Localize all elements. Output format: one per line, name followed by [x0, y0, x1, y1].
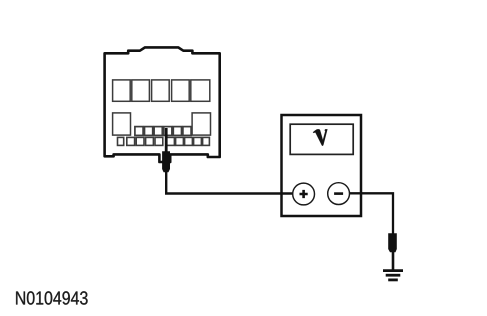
- ground symbol bar 2: [386, 274, 401, 277]
- ground symbol bar 3: [388, 278, 398, 281]
- voltmeter display window: [290, 124, 353, 154]
- connector pin bottom row cavity 8: [185, 137, 193, 145]
- connector pin bottom row cavity 4: [146, 137, 154, 145]
- connector pin bottom row cavity 10: [203, 137, 210, 145]
- probe tip at connector: [162, 151, 170, 172]
- probe tip at ground lead: [388, 233, 397, 252]
- figure number label N0104943: [16, 291, 88, 304]
- connector pin middle small row cavity 3: [154, 127, 162, 136]
- voltmeter negative symbol: [334, 192, 343, 195]
- connector pin bottom row cavity 6: [167, 137, 175, 145]
- connector pin bottom row cavity 9: [194, 137, 202, 145]
- connector pin row 1 cavity 3: [152, 80, 170, 101]
- connector C1 outline: [105, 47, 220, 162]
- connector pin bottom row cavity 5: [155, 137, 163, 145]
- connector pin bottom row cavity 2: [127, 137, 135, 145]
- connector pin bottom row cavity 7: [176, 137, 184, 145]
- connector pin row 2 large cavity right: [192, 113, 210, 135]
- ground symbol bar 1: [383, 269, 403, 272]
- connector pin row 1 cavity 2: [132, 80, 150, 101]
- connector pin row 1 cavity 5: [191, 80, 210, 101]
- connector pin row 2 large cavity left: [113, 113, 131, 135]
- connector pin row 1 cavity 1: [113, 80, 131, 101]
- connector pin middle small row cavity 5: [173, 127, 181, 136]
- wire from probe to voltmeter positive lead: [166, 170, 303, 194]
- connector pin bottom row cavity 3: [136, 137, 144, 145]
- connector pin row 1 cavity 4: [172, 80, 190, 101]
- voltmeter V1 body: [282, 115, 362, 216]
- connector pin middle small row cavity 1: [135, 127, 143, 136]
- wire ground lead lower: [392, 250, 395, 270]
- voltmeter negative terminal: [328, 183, 350, 205]
- connector pin middle small row cavity 4: [164, 127, 172, 136]
- connector pin middle small row cavity 6: [183, 127, 191, 136]
- wire from voltmeter negative lead to ground drop: [339, 193, 393, 235]
- connector pin bottom row cavity 1: [118, 137, 124, 145]
- connector pin middle small row cavity 2: [145, 127, 153, 136]
- voltmeter display V label: [313, 129, 327, 146]
- voltmeter positive terminal: [293, 183, 315, 205]
- wire probe lead inside connector: [165, 128, 168, 152]
- voltmeter positive symbol: [300, 190, 308, 198]
